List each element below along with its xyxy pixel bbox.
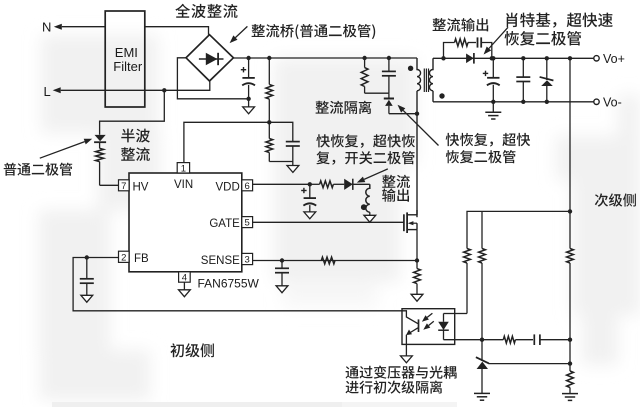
junction sec diode anode [441, 56, 445, 60]
junction rail C-in [246, 56, 250, 60]
ground sense cap [276, 286, 288, 293]
wire clamp to primary [389, 113, 417, 115]
capacitor C-sense [275, 261, 289, 286]
label 整流输出 top [433, 18, 489, 31]
wire secondary bottom rail [433, 101, 594, 103]
resistor R-led upper [464, 249, 471, 314]
resistor R-vin filter [266, 122, 273, 161]
ground bridge negative [243, 99, 255, 114]
junction fb cap [85, 255, 89, 259]
wire L branch to half-wave diode [100, 90, 165, 135]
wire fb vertical [569, 58, 571, 211]
ground vin filter [287, 162, 299, 173]
label 次级侧 [595, 193, 636, 206]
capacitor C-vdd electrolytic [301, 184, 316, 212]
diode D-clamp [384, 93, 394, 114]
wire led cathode [444, 339, 483, 341]
junction sec fb top [568, 56, 572, 60]
transformer core [424, 69, 428, 93]
wire DC+ rail [233, 57, 417, 59]
label 半波 [121, 129, 150, 143]
svg-text:Vo-: Vo- [603, 95, 622, 109]
pin 7 HV [119, 180, 130, 192]
IC pin labels [133, 179, 241, 267]
svg-text:HV: HV [133, 181, 149, 193]
svg-text:3: 3 [245, 255, 250, 266]
svg-text:2: 2 [121, 252, 126, 263]
ground aux winding [364, 215, 376, 222]
junction L branch [162, 88, 166, 92]
pin 6 VDD [242, 180, 253, 192]
wire fb from primary [73, 258, 402, 311]
optocoupler U2 box [402, 309, 455, 345]
ground vdd cap [304, 212, 316, 219]
wire VDD [253, 183, 310, 185]
label 初级侧 [170, 343, 214, 357]
label 通过变压器与光耦 [346, 366, 457, 379]
arrow to hv diode [40, 139, 92, 158]
ground fb cap [81, 295, 93, 302]
junction sec zener top [545, 56, 549, 60]
wire secondary top rail [433, 57, 594, 59]
capacitor C-fb [80, 258, 94, 296]
label 恢复二极管 schottky line2 [505, 31, 582, 46]
resistor R-sense shunt [414, 261, 421, 295]
svg-text:Vo+: Vo+ [603, 52, 625, 66]
junction sec cap2 top [521, 56, 525, 60]
label 进行初次级隔离 [346, 381, 443, 394]
wire N to bridge top [145, 27, 209, 35]
ground secondary [485, 102, 501, 119]
svg-text:L: L [44, 84, 51, 99]
transformer primary winding [417, 58, 421, 217]
label 整流隔离 [316, 101, 372, 114]
label 整流 vdd [382, 175, 410, 188]
svg-text:N: N [42, 20, 51, 35]
svg-text:VDD: VDD [216, 181, 240, 193]
label 恢复二极管 line2 [446, 150, 516, 163]
capacitor C-out electrolytic [483, 58, 500, 102]
resistor R-startup [266, 58, 273, 122]
transistor Q1 MOSFET [404, 210, 417, 233]
arrow to schottky diode [484, 27, 508, 54]
junction comp right [568, 338, 572, 342]
label 快恢复超快 line1 [446, 133, 531, 147]
wire VIN node [184, 122, 293, 162]
ground opto emitter [401, 356, 413, 363]
arrow to clamp diode [398, 105, 439, 146]
node L terminal [44, 84, 105, 99]
diode D-vdd [344, 179, 370, 190]
diode D-hv half wave [94, 135, 106, 148]
svg-text:7: 7 [121, 181, 126, 192]
wire divider horizontal [467, 211, 570, 248]
transformer secondary polarity dot [439, 93, 444, 98]
wire GATE [253, 221, 404, 223]
pin 4 GND [179, 272, 191, 284]
zener D-z output [540, 58, 554, 102]
junction led cathode node [480, 338, 484, 342]
optocoupler light arrows [422, 313, 434, 330]
optocoupler LED [438, 314, 455, 340]
EMI filter block [105, 11, 145, 107]
pin 5 GATE [242, 217, 253, 229]
snubber R-C across diode [444, 37, 492, 58]
terminal Vo+ [594, 52, 625, 66]
wire tl431 ref [489, 363, 570, 365]
transformer primary polarity dot [408, 66, 413, 71]
capacitor C-in electrolytic [241, 58, 255, 99]
wire SENSE [253, 260, 417, 262]
pin 1 VIN [177, 163, 189, 175]
arrow to VDD diode [357, 169, 388, 183]
junction zener bottom [545, 100, 549, 104]
wire clamp bottom [365, 92, 389, 94]
resistor R-fb lower [567, 340, 574, 394]
capacitor C-out2 [516, 58, 530, 102]
ground IC pin4 [179, 282, 191, 297]
svg-text:4: 4 [182, 272, 187, 283]
resistor R-hv [96, 148, 119, 185]
resistor R-sense series [321, 257, 335, 264]
transformer secondary winding [429, 58, 433, 102]
capacitor C-clamp [382, 58, 396, 93]
transformer aux winding [366, 184, 370, 215]
junction bridge gnd [246, 97, 250, 101]
junction primary clamp [415, 112, 419, 116]
terminal Vo- [594, 95, 622, 109]
label 肖特基超快速 line1 [506, 13, 613, 28]
label 整流桥(普通二极管) [252, 24, 376, 39]
pin 3 SENSE [242, 253, 253, 265]
capacitor C-comp [534, 334, 570, 345]
junction cout bottom [491, 100, 495, 104]
junction rail clamp R [362, 56, 366, 60]
svg-text:Filter: Filter [113, 59, 143, 74]
junction sec diode cathode [490, 56, 494, 60]
optocoupler phototransistor [402, 311, 419, 356]
label 快恢复超快恢 line1 [316, 134, 415, 148]
junction rail R-startup [267, 56, 271, 60]
node N terminal [42, 20, 105, 35]
svg-text:EMI: EMI [115, 45, 138, 60]
wire led anode [455, 313, 467, 315]
svg-text:FAN6755W: FAN6755W [198, 277, 260, 291]
junction VIN node [267, 120, 271, 124]
junction source sense [415, 258, 419, 262]
svg-text:VIN: VIN [174, 179, 193, 191]
junction cout2 bottom [521, 100, 525, 104]
wire L to bridge bottom [105, 81, 210, 90]
bridge rectifier BR1 [186, 35, 233, 81]
resistor R-fb upper [567, 211, 574, 339]
ground TL431 [474, 393, 490, 400]
svg-text:FB: FB [134, 253, 149, 265]
shunt regulator TL431 [476, 340, 489, 394]
label 全波整流 [175, 4, 237, 18]
capacitor C-vin filter [286, 142, 300, 162]
wire bridge negative to gnd rail [177, 58, 248, 99]
wire vin filter bottom [269, 161, 293, 163]
ground sense resistor [411, 294, 423, 301]
resistor R-bias upper [479, 249, 486, 340]
label 输出 vdd [382, 188, 409, 201]
svg-text:5: 5 [245, 218, 250, 229]
svg-text:6: 6 [245, 181, 250, 192]
aux winding polarity dot [361, 204, 367, 210]
label 整流 halfwave [121, 147, 150, 161]
junction sec cap1 top [491, 56, 495, 60]
resistor R-clamp [361, 58, 368, 93]
svg-text:GATE: GATE [209, 218, 240, 230]
label 复开关二极管 line2 [316, 151, 414, 165]
pin 2 FB [119, 251, 130, 263]
ground fb divider [562, 394, 578, 401]
diode D-out schottky [466, 53, 474, 64]
resistor R-vdd [310, 181, 344, 188]
junction sense cap [280, 258, 284, 262]
IC part number [198, 277, 260, 291]
wire mosfet source [416, 230, 418, 261]
IC U1 FAN6755W box [129, 173, 242, 272]
svg-text:1: 1 [181, 163, 186, 174]
junction rail clamp C [387, 56, 391, 60]
watermark bottom strip [52, 402, 457, 407]
label 普通二极管 [4, 163, 73, 176]
junction VDD cap [308, 182, 312, 186]
arrow to bridge [230, 26, 248, 43]
svg-text:SENSE: SENSE [201, 255, 240, 267]
junction fb lower [568, 361, 572, 365]
junction fb divider [568, 209, 572, 213]
resistor R-comp [482, 336, 533, 343]
